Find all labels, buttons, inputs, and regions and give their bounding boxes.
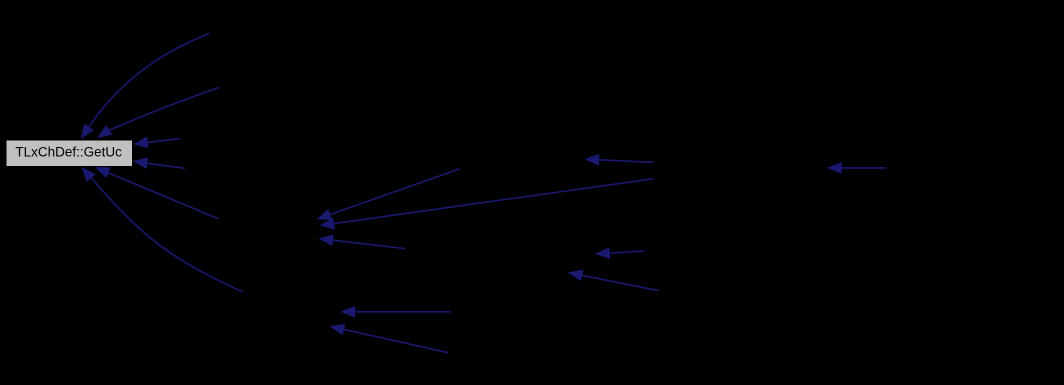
edge R2 <box>133 158 185 169</box>
edge E1 <box>585 154 653 165</box>
edge R1 <box>134 137 181 148</box>
svg-text:TLxChDef::GetUc: TLxChDef::GetUc <box>15 144 122 159</box>
edge C2 (curve from upper caller) <box>98 88 219 138</box>
edge E2 <box>828 162 886 173</box>
edge E4 <box>568 270 659 291</box>
edge M2 <box>320 179 653 229</box>
edge M3 <box>319 235 405 249</box>
edge E3 <box>596 248 645 259</box>
edge M1 <box>317 169 460 220</box>
edge B1 <box>95 167 218 219</box>
edge B2 (curve from lower caller) <box>82 167 243 292</box>
edge E5 <box>341 306 451 317</box>
node TLxChDef::GetUc (current function, grey box) <box>6 140 133 167</box>
edge E6 <box>330 324 448 353</box>
edge C1 (curve from top caller) <box>81 34 210 139</box>
